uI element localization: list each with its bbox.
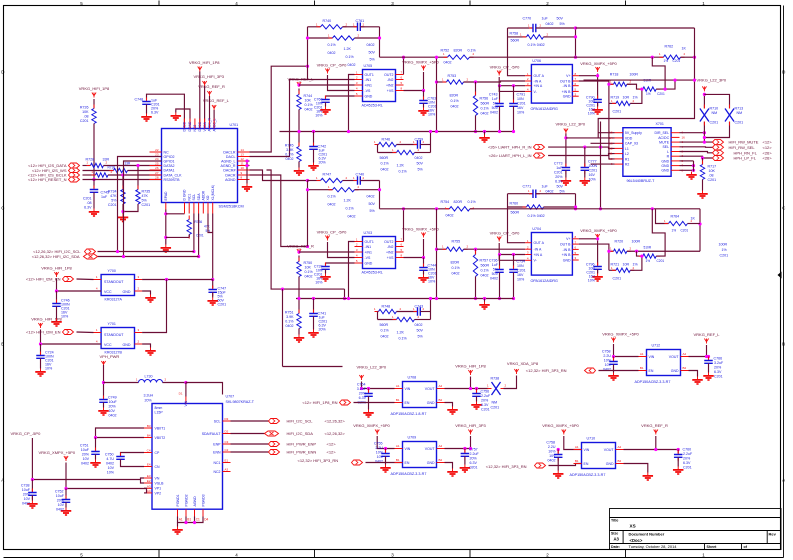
svg-text:1uF: 1uF [101, 195, 108, 199]
wire DATA to R735 [137, 166, 139, 190]
svg-text:16V: 16V [589, 173, 596, 177]
svg-text:16V: 16V [517, 273, 524, 277]
power symbol VRKG_XMPX_+5P0 U707 [64, 456, 68, 461]
wire X1(MCLK) down to oscillator [212, 214, 214, 280]
svg-text:20%: 20% [57, 499, 65, 503]
power symbol VRKG_L22_3P0 (NM pullups) [702, 86, 706, 91]
svg-text:DIR_SEL: DIR_SEL [655, 131, 670, 135]
pin B1 U709 (EN) [395, 462, 403, 464]
wire fb left vertical U705 [307, 27, 309, 80]
resistor R753 820R [443, 80, 468, 84]
svg-text:B4: B4 [147, 434, 151, 438]
wire R721 left [609, 269, 616, 271]
junction route/bus [343, 297, 346, 300]
svg-text:B3: B3 [147, 424, 151, 428]
svg-text:1.2K: 1.2K [397, 331, 405, 335]
wire XO stub [208, 214, 213, 233]
svg-text:VRKG_HIFI_1P8: VRKG_HIFI_1P8 [455, 364, 486, 369]
power symbol VRKG_XMPX_+5P0 U710 [562, 430, 566, 435]
svg-text:OUT A: OUT A [534, 241, 545, 245]
pin 1 U705 left (OUT1) [355, 74, 363, 76]
wire stage2 row2 right [415, 319, 431, 321]
capacitor C755 [381, 450, 390, 461]
svg-text:0402: 0402 [367, 195, 375, 199]
svg-text:-VS: -VS [365, 89, 372, 93]
wire to C758 [613, 357, 615, 361]
pin 10 X701 left (R1) [615, 158, 623, 160]
resistor R730 33R [110, 168, 132, 172]
junction rail/chain [673, 79, 676, 82]
wire R756 to bus [475, 116, 477, 132]
svg-text:13: 13 [241, 153, 245, 157]
wire C743 to bus [499, 106, 501, 131]
wire R764 parallel loop bottom [652, 209, 665, 256]
ground ref cap U703 [308, 330, 319, 338]
wire R726 bottom to RESET net [93, 124, 95, 180]
resistor stage2 second U705 [393, 150, 419, 154]
svg-text:AVCC_R: AVCC_R [208, 117, 212, 131]
pin B2 U709 (GND) [437, 462, 445, 464]
svg-text:20%: 20% [23, 493, 31, 497]
svg-text:10V: 10V [549, 454, 556, 458]
junction C755 [384, 447, 387, 450]
wire to C746 [56, 291, 58, 303]
junction R734/R735 [121, 210, 124, 213]
svg-text:3.2uF: 3.2uF [357, 387, 367, 391]
resistor R746 stage2 [375, 142, 401, 146]
ground U707 PGND [172, 527, 183, 535]
wire Y701 VCC [41, 330, 102, 345]
svg-text:L: L [667, 150, 669, 154]
junction divider/bus [297, 130, 300, 133]
svg-text:VDD: VDD [625, 136, 633, 140]
svg-text:6.3V: 6.3V [470, 461, 478, 465]
svg-text:50V: 50V [369, 202, 376, 206]
svg-text:560R: 560R [481, 102, 490, 106]
wire to C791 [513, 86, 515, 103]
wire +VS supply U703 [404, 239, 424, 258]
svg-text:0.1%: 0.1% [399, 170, 408, 174]
svg-text:0402: 0402 [546, 190, 554, 194]
pin C2 U707 right (ENN) [223, 451, 231, 453]
svg-text:VRKG_XMPX_+5P0: VRKG_XMPX_+5P0 [39, 450, 76, 455]
svg-text:2.2U: 2.2U [375, 446, 383, 450]
svg-text:R717: R717 [708, 165, 717, 169]
svg-text:10%: 10% [517, 278, 525, 282]
svg-text:DVDD: DVDD [183, 121, 187, 131]
svg-text:20%: 20% [82, 453, 90, 457]
regulator U710 body [582, 443, 616, 469]
ground C756 [471, 402, 482, 410]
pin 8 U704 right (V+) [572, 238, 578, 240]
junction fb right [378, 188, 381, 191]
svg-text:10V: 10V [605, 363, 612, 367]
wire C758b down [557, 457, 559, 470]
wire to C758 (U710) [557, 450, 559, 454]
resistor R758 560R [523, 35, 548, 39]
wire Y701 out join [142, 280, 166, 333]
svg-text:R757: R757 [480, 259, 489, 263]
svg-text:Date:: Date: [611, 545, 620, 549]
svg-text:0402: 0402 [286, 157, 294, 161]
port HIFI_1P8_RN (U708 EN) [340, 400, 351, 405]
junction mux gnd 2 [692, 169, 695, 172]
wire R720 right [627, 250, 700, 252]
svg-text:10N: 10N [517, 264, 524, 268]
wire VB0T1 [96, 428, 145, 438]
wire chain to R1 [609, 103, 615, 158]
wire +IN A U706 [500, 85, 526, 87]
pin U701 top (DVDD) [183, 119, 185, 129]
svg-text:B2: B2 [618, 459, 622, 463]
svg-text:GND: GND [661, 169, 669, 173]
svg-text:VRKG_XMPX_+5P0: VRKG_XMPX_+5P0 [353, 423, 390, 428]
resistor R760 560R [523, 205, 548, 209]
wire to C760 [677, 450, 679, 454]
svg-text:C201: C201 [218, 303, 227, 307]
wire bus extension right [447, 131, 514, 133]
svg-text:R755: R755 [452, 240, 461, 244]
wire EN U712 [599, 370, 639, 372]
ground AGND pins [242, 184, 253, 192]
svg-text:L730: L730 [145, 375, 153, 379]
wire AGND_R join [247, 165, 250, 167]
svg-text:VB0T1: VB0T1 [155, 426, 166, 430]
svg-text:<12,26,32>: <12,26,32> [325, 419, 346, 424]
capacitor C746 [52, 300, 61, 311]
wire to C734 [513, 255, 515, 269]
svg-text:CN: CN [155, 465, 161, 469]
wire U710 GND [624, 464, 648, 473]
wire to R723 [637, 251, 643, 256]
svg-text:10%: 10% [107, 471, 115, 475]
svg-text:GND: GND [427, 461, 435, 465]
junction DACLR entry [306, 65, 309, 68]
port HIFI_I2M_RN [63, 277, 74, 282]
svg-text:20%: 20% [481, 399, 489, 403]
inductor L730 [139, 380, 163, 383]
svg-text:VRKG_XMPX_+5P0: VRKG_XMPX_+5P0 [580, 228, 617, 233]
wire R721 right [630, 256, 642, 270]
pin 22 U701 left (NC) [150, 151, 162, 153]
junction fb left [306, 188, 309, 191]
pin U701 bottom (X1(MCLK)) [212, 203, 214, 214]
resistor R751 3.9K [297, 310, 301, 333]
pin 2 U704 left (-IN A) [525, 248, 531, 250]
wire ENN to port [231, 451, 269, 453]
pin R710 bottom [703, 122, 705, 126]
svg-text:20%: 20% [470, 457, 478, 461]
resistor R744 10K [297, 91, 301, 114]
svg-text:VRKG_XDA_1P8: VRKG_XDA_1P8 [507, 361, 539, 366]
wire cap lead [325, 269, 327, 273]
wire OUT2 to main net U703 [403, 209, 405, 242]
wire C748 rail to DVDD [147, 94, 185, 128]
wire fb row2 left U703 [308, 189, 333, 191]
wire fb row2 left U705 [308, 37, 333, 39]
wire fb row2 right U705 [355, 37, 380, 39]
svg-text:VRKG_CP_-5P0: VRKG_CP_-5P0 [11, 431, 42, 436]
ground Y701 [145, 348, 156, 356]
wire R717 to ground [702, 180, 704, 191]
svg-text:DATA2: DATA2 [164, 164, 175, 168]
wire GND pin to cap U703 [326, 263, 355, 266]
svg-text:1uF: 1uF [556, 166, 563, 170]
svg-text:VPH_PWR: VPH_PWR [100, 354, 120, 359]
svg-text:50V: 50V [492, 272, 499, 276]
wire to C736 [499, 255, 501, 269]
svg-text:0402: 0402 [446, 214, 454, 218]
power symbol VRKG_CP_-5P0 U704 [497, 237, 501, 242]
pin 2 U703 left (-IN1) [355, 246, 363, 248]
svg-text:U707: U707 [226, 395, 235, 399]
wire bus extension right bottom [447, 298, 514, 300]
wire stage2 row2 left [378, 152, 397, 154]
svg-text:10%: 10% [428, 113, 436, 117]
junction R721/chain [640, 255, 643, 258]
svg-text:0402: 0402 [381, 335, 389, 339]
svg-text:B1: B1 [640, 366, 644, 370]
capacitor C758 (U710 input) [554, 451, 563, 462]
svg-text:V+: V+ [566, 237, 570, 241]
pin 14 X701 left (VDD) [615, 137, 623, 139]
svg-text:10V: 10V [377, 455, 384, 459]
wire stage2 row1 mid [397, 144, 418, 146]
pin 3 U705 left (+IN1) [355, 84, 363, 86]
wire ref cap to ground [313, 149, 315, 162]
wire fb row1 mid U705 [343, 26, 358, 28]
junction fb left [306, 36, 309, 39]
svg-text:AGND_R: AGND_R [221, 164, 236, 168]
capacitor C760 (GND pin) [321, 96, 330, 107]
wire V+ to U704 [579, 238, 598, 240]
pin 7 U704 right (OUT B) [572, 243, 578, 245]
resistor R722 510R [639, 87, 660, 91]
resistor R718 100R [610, 82, 631, 86]
wire DATA to R728 [83, 165, 91, 167]
wire BCLK to R731 [83, 174, 96, 176]
capacitor C761 feedback [354, 23, 365, 32]
junction vertical/main [599, 207, 602, 210]
junction DIR_SEL/NM [703, 131, 706, 134]
pin 8 U706 right (V+) [572, 75, 578, 77]
wire stage2 left vertical [377, 145, 379, 153]
svg-text:+IN2: +IN2 [386, 83, 394, 87]
svg-text:C201: C201 [83, 197, 92, 201]
wire supply down to mux [598, 28, 694, 138]
wire DACLR to left channel input [250, 66, 308, 152]
wire to R756 [475, 82, 477, 96]
wire into VN [141, 478, 145, 480]
title block outline [610, 509, 782, 550]
wire main net to R752 [380, 56, 448, 58]
frame zone tick bottom [158, 550, 160, 558]
pin A2 U710 (VOUT) [616, 449, 624, 451]
wire port to U709 EN [366, 462, 403, 464]
svg-text:R764: R764 [671, 215, 680, 219]
svg-text:R754: R754 [441, 200, 450, 204]
svg-text:R2: R2 [625, 163, 630, 167]
svg-text:C201: C201 [708, 178, 717, 182]
capacitor C734 [509, 266, 518, 277]
wire C754 down [368, 396, 370, 409]
svg-text:C201: C201 [196, 234, 204, 238]
wire R764 left [656, 209, 669, 224]
wire bus to ground bottom [484, 299, 486, 302]
svg-text:A2: A2 [618, 445, 622, 449]
wire -VS supply U703 [328, 242, 355, 258]
pin 6 X701 right (DIR_SEL) [671, 132, 679, 134]
ground GND-pin cap U705 [320, 107, 331, 115]
svg-text:STANDOUT: STANDOUT [104, 280, 124, 284]
svg-text:6.3V: 6.3V [481, 403, 489, 407]
svg-text:10%: 10% [376, 451, 384, 455]
wire V+ to U706 [579, 75, 598, 77]
svg-text:GND: GND [123, 290, 131, 294]
svg-text:R718: R718 [610, 73, 619, 77]
svg-text:DATA_CLK: DATA_CLK [164, 173, 183, 177]
wire V+ supply vertical U704 [597, 241, 599, 266]
pin 7 U705 right (OUT2) [396, 74, 404, 76]
wire C791 to bus [513, 106, 515, 131]
wire L22 arrow down to C773 [565, 134, 567, 167]
wire to U709 VIN [377, 436, 394, 449]
pin 2 Y701 [135, 343, 143, 345]
svg-text:C201: C201 [613, 277, 622, 281]
pin A2 U709 (VOUT) [437, 448, 445, 450]
svg-text:<12> HIFI_RESET_N: <12> HIFI_RESET_N [28, 177, 67, 182]
svg-text:5%: 5% [493, 268, 499, 272]
svg-text:AD45253-RL: AD45253-RL [362, 104, 383, 108]
pin R713 bottom [729, 122, 731, 126]
capacitor C750 flying [116, 453, 125, 464]
pin 4 U706 left (V-) [525, 90, 531, 92]
pin 12 X701 left (L1) [615, 147, 623, 149]
junction VB0T [94, 436, 97, 439]
resistor R721 10R [612, 268, 634, 272]
svg-text:A1: A1 [640, 352, 644, 356]
svg-text:HIFI_RW_SEL: HIFI_RW_SEL [729, 145, 756, 150]
junction VOUT 1P8 [469, 387, 472, 390]
svg-text:C201: C201 [720, 254, 729, 258]
svg-text:560R: 560R [481, 264, 490, 268]
svg-text:VRKG_HIFI_3P3: VRKG_HIFI_3P3 [455, 423, 486, 428]
pin 6 U706 right (-IN B) [572, 85, 578, 87]
resistor R745 3.9K [297, 143, 301, 166]
wire U708 VOUT arrow [470, 377, 472, 389]
svg-text:5%: 5% [418, 335, 424, 339]
svg-text:50V: 50V [417, 162, 424, 166]
pin 4 U705 left (-VS) [355, 90, 363, 92]
svg-text:VRKG_XMPX_+5P0: VRKG_XMPX_+5P0 [402, 60, 439, 65]
pin 24 U701 left (GPIO1) [150, 160, 162, 162]
port HIFI_3P3_RN (U709 EN) [352, 460, 363, 465]
svg-text:<26>: <26> [763, 156, 773, 161]
wire C770 box row1 left [508, 27, 534, 29]
junction R755 [435, 248, 438, 251]
pin C1 U707 bottom (AGND) [194, 509, 196, 516]
svg-text:10V: 10V [24, 497, 31, 501]
port HIFI_PWR_ENN [269, 450, 280, 455]
capacitor C766 [704, 357, 713, 368]
svg-text:1%: 1% [646, 92, 651, 96]
svg-text:20%: 20% [714, 366, 722, 370]
port HIFI_I2C_SCL [85, 249, 96, 254]
svg-text:SCL: SCL [192, 194, 196, 201]
svg-text:C201: C201 [657, 92, 665, 96]
svg-text:0.1%: 0.1% [451, 99, 460, 103]
svg-text:3.9K: 3.9K [286, 148, 294, 152]
capacitor C738 [28, 489, 37, 500]
wire fb right vertical U703 [379, 181, 381, 209]
power symbol VRKG_CP_-5P0 U705 [325, 69, 329, 74]
junction VOUT REF_L [705, 355, 708, 358]
pin U701 top (VDDA) [204, 119, 206, 129]
svg-text:C201: C201 [517, 102, 526, 106]
svg-text:L1: L1 [625, 147, 629, 151]
pin U701 bottom (XO) [207, 203, 209, 214]
svg-text:B1: B1 [396, 398, 400, 402]
capacitor C770 [529, 24, 540, 33]
capacitor C749 [99, 396, 108, 407]
svg-text:VCC: VCC [104, 290, 112, 294]
svg-text:C770: C770 [523, 17, 532, 21]
resistor R736 pulldown [187, 216, 191, 239]
svg-text:820R: 820R [450, 94, 459, 98]
svg-text:NC2: NC2 [213, 470, 220, 474]
wire bus to ground [484, 132, 486, 135]
junction C756 [475, 387, 478, 390]
svg-text:5%: 5% [418, 168, 424, 172]
svg-text:0402: 0402 [328, 203, 336, 207]
junction R753 [435, 80, 438, 83]
capacitor C773 [562, 164, 571, 175]
svg-text:AGND_L: AGND_L [221, 159, 235, 163]
junction V+/cap U704 [596, 237, 599, 240]
junction box/main bottom [574, 207, 577, 210]
svg-text:C791: C791 [517, 93, 526, 97]
wire +5V net down [65, 463, 67, 489]
capacitor C748 [142, 98, 151, 109]
svg-text:GND: GND [563, 258, 571, 262]
wire port to Y701 pin1 [77, 331, 94, 334]
wire SDA to port [231, 433, 265, 435]
wire box output vertical bottom [575, 194, 577, 209]
ground bus (bottom stage) [479, 302, 490, 310]
svg-text:VRKG_CP_-5P0: VRKG_CP_-5P0 [490, 231, 521, 236]
svg-text:VRKG_L22_3P0: VRKG_L22_3P0 [556, 122, 586, 127]
wire BCLK to R734 [122, 175, 124, 190]
svg-text:50V: 50V [557, 185, 564, 189]
border centre mark right [778, 272, 782, 279]
capacitor C757 [461, 450, 470, 461]
svg-text:6.3V: 6.3V [714, 370, 722, 374]
svg-text:VIN: VIN [584, 448, 590, 452]
resistor R723 510R [639, 254, 660, 258]
wire divider middle U703 [298, 277, 300, 314]
wire C751 down [95, 454, 97, 459]
wire OUT B to R718 [579, 81, 609, 84]
svg-text:C201: C201 [481, 408, 490, 412]
wire L22 rail to U708 area [283, 366, 343, 368]
junction main/x436 [435, 56, 438, 59]
svg-text:-IN A: -IN A [534, 79, 542, 83]
svg-text:SDA/FAULT: SDA/FAULT [202, 432, 222, 436]
pin 5 U704 right (+IN B) [572, 254, 578, 256]
wire +VS supply U705 [404, 72, 424, 91]
pin B1 U710 (EN) [574, 463, 582, 465]
pin 1 U703 left (OUT1) [355, 241, 363, 243]
